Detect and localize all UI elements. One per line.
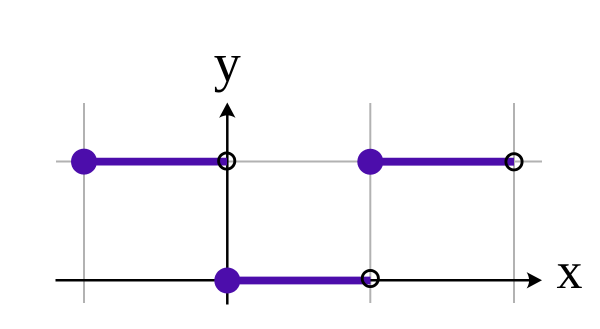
closed point (0,0) bbox=[214, 268, 240, 294]
y-axis bbox=[226, 113, 229, 305]
segment y=1 on [-1,0) bbox=[84, 158, 227, 166]
segment y=1 on [1,2) bbox=[370, 158, 514, 166]
grid horizontal line y=1 bbox=[56, 161, 542, 163]
x-axis arrowhead bbox=[527, 272, 542, 288]
y-axis arrowhead bbox=[219, 103, 235, 118]
svg-text:x: x bbox=[557, 243, 583, 300]
svg-text:y: y bbox=[214, 33, 241, 93]
segment y=0 on [0,1) bbox=[227, 277, 370, 285]
closed point (-1,1) bbox=[71, 149, 97, 175]
open point (1,0) bbox=[362, 270, 378, 286]
open point (2,1) bbox=[506, 154, 522, 170]
x-axis bbox=[56, 279, 533, 282]
grid vertical line x=2 bbox=[513, 103, 515, 303]
open point (0,1) bbox=[219, 153, 235, 169]
grid vertical line x=1 bbox=[369, 103, 371, 303]
grid vertical line x=-1 bbox=[83, 103, 85, 303]
closed point (1,1) bbox=[357, 149, 383, 175]
